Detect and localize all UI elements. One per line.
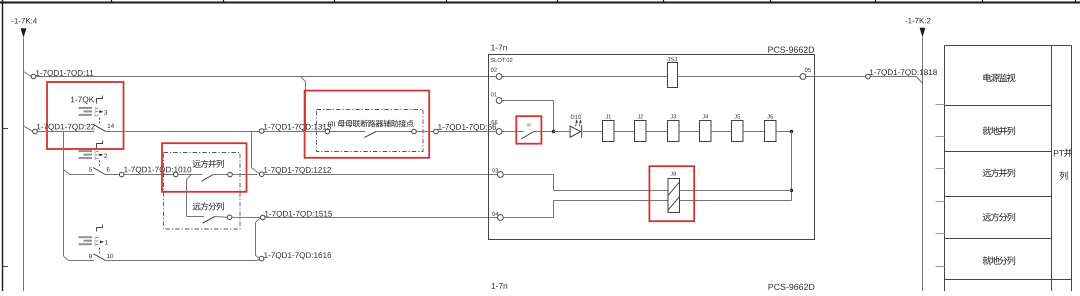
arrow -1-7K:4: [21, 28, 27, 38]
switch 1-7QK deck2 handle: [97, 141, 103, 149]
wire right rail vertical: [791, 132, 793, 201]
wire remote-par out: [232, 174, 257, 176]
node 1-7QD1-7QD:66: [434, 129, 439, 134]
wire :1313 to bus-tie contact: [264, 131, 325, 133]
wire J1 to J2: [614, 131, 635, 133]
wire J4 to J5: [711, 131, 732, 133]
drawing frame top border: [0, 2, 1080, 4]
contact bus-tie aux: [325, 129, 330, 134]
wire deck1 to :1313: [106, 131, 260, 133]
pin 14: [108, 124, 111, 128]
pin 03: [492, 168, 495, 172]
junction dot right rail: [790, 189, 793, 192]
wire pin03 to J8: [503, 174, 554, 176]
table borders: [945, 45, 1072, 47]
device2 label 1-7n: [492, 283, 496, 289]
wire pin01 down to coil line: [502, 100, 554, 102]
junction dot: [552, 130, 555, 133]
wire :1818 to bus C: [870, 76, 916, 78]
pin 02: [491, 68, 494, 72]
wire J2 to J3: [646, 131, 668, 133]
frame ruler ticks: [111, 0, 113, 4]
node 1-7QD1-7QD:1616: [259, 256, 264, 261]
wire D10 to J1: [583, 131, 603, 133]
node 1-7QD1-7QD:1313: [259, 129, 264, 134]
highlight box J8: [649, 166, 694, 221]
junction dot right rail top: [790, 130, 793, 133]
wire bus B to deck2: [64, 170, 70, 175]
wire :66 to pin66: [438, 131, 496, 133]
wire deck3 to :1616: [106, 260, 257, 262]
table cell 就地并列: [983, 126, 991, 134]
node 1-7QD1-7QD:1818: [866, 74, 871, 79]
pin 10: [107, 254, 110, 258]
switch 1-7QK deck2 axis: [99, 160, 101, 167]
diode D10: [571, 115, 574, 119]
highlight box JB contact: [516, 116, 541, 144]
switch 1-7QK deck2 position rows: [79, 150, 93, 152]
wire :11 horizontal: [36, 76, 497, 78]
wire pin04 to J8: [503, 217, 554, 219]
label 1-7QD1-7QD:22: [37, 124, 40, 130]
wire J8 to right rail: [680, 190, 792, 192]
switch 1-7QK deck3 handle: [97, 225, 103, 232]
table cell 电源监视: [983, 73, 991, 81]
pin 5: [89, 167, 92, 171]
node 1-7QD1-7QD:1010: [119, 172, 124, 177]
wire pin05 to :1818: [806, 76, 866, 78]
pin 66: [491, 120, 494, 124]
switch 1-7QK deck1 contact: [93, 124, 105, 131]
device 1-7n box: [489, 55, 815, 240]
wire J8 lower to right rail: [680, 200, 792, 202]
switch 1-7QK deck3 position arrow: [100, 241, 104, 244]
label 1-7QD1-7QD:66: [438, 124, 441, 130]
dashed box remote contacts: [164, 153, 241, 230]
wire branch :1515 to :1616: [256, 218, 260, 222]
label 1-7QD1-7QD:1818: [870, 69, 873, 75]
highlight box bus-tie aux: [305, 91, 430, 158]
wire deck2 to :1010: [105, 174, 119, 176]
wire J5 to J6: [743, 131, 765, 133]
switch 1-7QK label: [71, 97, 75, 103]
table cell 就地分列: [983, 256, 991, 264]
relay JSJ: [667, 57, 669, 61]
table column PT-parallel: [1054, 150, 1059, 156]
relay J8: [671, 172, 673, 176]
wire bus-tie to :66: [416, 131, 433, 133]
table left stubs: [936, 104, 945, 106]
wire :1515 to pin04: [265, 217, 497, 219]
pin 9: [89, 254, 92, 258]
label 1-7QD1-7QD:1010: [124, 167, 127, 173]
wire :1212 to pin03: [264, 174, 498, 176]
switch 1-7QK deck3 axis: [99, 248, 101, 254]
wire JSJ to pin05: [678, 76, 801, 78]
wire pin02 to JSJ: [502, 76, 668, 78]
wire bus B to deck3: [69, 260, 94, 262]
contact remote split: [203, 217, 215, 224]
wire link par-split: [187, 175, 192, 180]
switch 1-7QK deck1 position rows: [79, 107, 93, 109]
switch 1-7QK deck1 handle: [97, 96, 103, 104]
wire JB to junction: [534, 131, 554, 133]
device label 1-7n: [491, 45, 495, 51]
contact JB: [527, 124, 529, 127]
wire bus C vertical: [922, 37, 924, 291]
table row dividers: [945, 105, 1052, 107]
relay J4: [702, 114, 704, 118]
switch 1-7QK deck2 position arrow: [99, 154, 103, 157]
relay J1: [605, 114, 607, 118]
label 1-7QD1-7QD:11: [36, 70, 39, 76]
net label -1-7K:4: [12, 20, 14, 23]
label 1-7QD1-7QD:1515: [265, 211, 268, 217]
pin 01: [491, 92, 494, 96]
highlight box 1-7QK: [47, 82, 124, 149]
wire pin66 to JB contact: [502, 131, 516, 133]
table cell 远方分列: [983, 213, 992, 221]
arrow -1-7K:2: [920, 28, 926, 38]
dashed box bus-tie aux: [317, 110, 424, 152]
wire junction to D10: [554, 131, 570, 133]
switch 1-7QK deck3 position rows: [79, 236, 93, 238]
relay J5: [734, 114, 736, 118]
wire remote-split out: [232, 216, 260, 218]
device label PCS-9662D: [768, 47, 773, 53]
label 1-7QD1-7QD:1616: [264, 252, 267, 258]
relay J2: [637, 114, 639, 118]
node 1-7QD1-7QD:1515: [261, 215, 266, 220]
label bus-tie aux contact: [327, 122, 330, 127]
net label -1-7K:2: [905, 20, 907, 23]
wire bus B vertical: [63, 132, 65, 257]
node 1-7QD1-7QD:11: [24, 72, 32, 77]
relay J6: [767, 114, 769, 118]
label remote split: [193, 203, 201, 210]
wire :1010 to remote-par contact: [124, 174, 173, 176]
wire branch :1313 to :1212: [251, 132, 253, 168]
wire J3 to J4: [679, 131, 700, 133]
switch 1-7QK deck1 axis: [99, 118, 101, 125]
switch 1-7QK deck1 position arrow: [99, 110, 103, 113]
node 1-7QD1-7QD:1212: [259, 172, 264, 177]
pin 04: [492, 212, 495, 216]
device2 label PCS-9662D: [769, 284, 774, 290]
wire :22 to deck1: [37, 131, 94, 133]
switch 1-7QK deck3 contact: [94, 254, 106, 261]
label 1-7QD1-7QD:1212: [264, 167, 267, 173]
switch 1-7QK deck2 contact: [93, 168, 105, 175]
wire bus A vertical: [23, 38, 25, 291]
node 1-7QD1-7QD:22: [24, 126, 33, 132]
contact remote parallel: [173, 172, 178, 177]
wire tap to bus-tie contact: [301, 77, 306, 82]
frame left border: [2, 0, 4, 291]
frame left ticks: [3, 128, 9, 130]
table cell 远方并列: [983, 169, 992, 177]
label 1-7QD1-7QD:1313: [264, 124, 267, 130]
pin 05: [805, 68, 808, 72]
relay J3: [670, 114, 672, 118]
device label SLOT:02: [490, 58, 493, 62]
wire J6 to right rail: [776, 131, 792, 133]
label remote parallel: [193, 160, 201, 167]
highlight box remote parallel: [162, 143, 247, 192]
pin 6: [107, 167, 110, 171]
